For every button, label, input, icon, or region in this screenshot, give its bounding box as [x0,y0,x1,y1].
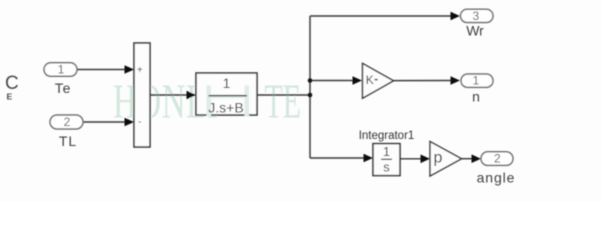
svg-text:1: 1 [223,75,231,91]
svg-text:p: p [434,149,443,166]
svg-text:+: + [137,65,143,76]
svg-text:J.s+B: J.s+B [208,99,243,115]
svg-text:TL: TL [59,133,77,149]
svg-text:2: 2 [64,115,71,129]
svg-text:-: - [138,117,141,128]
svg-text:Wr: Wr [466,22,484,38]
svg-text:E: E [7,92,13,102]
svg-text:Integrator1: Integrator1 [359,130,415,142]
svg-text:1: 1 [472,74,479,88]
svg-text:3: 3 [472,9,479,23]
svg-text:n: n [472,89,480,105]
svg-text:K: K [366,73,374,87]
svg-text:s: s [383,160,390,175]
svg-text:angle: angle [477,170,516,186]
svg-text:Te: Te [55,80,72,96]
svg-text:1: 1 [383,144,390,159]
svg-text:1: 1 [58,62,65,76]
svg-text:TE: TE [265,74,302,128]
svg-text:2: 2 [494,152,501,166]
